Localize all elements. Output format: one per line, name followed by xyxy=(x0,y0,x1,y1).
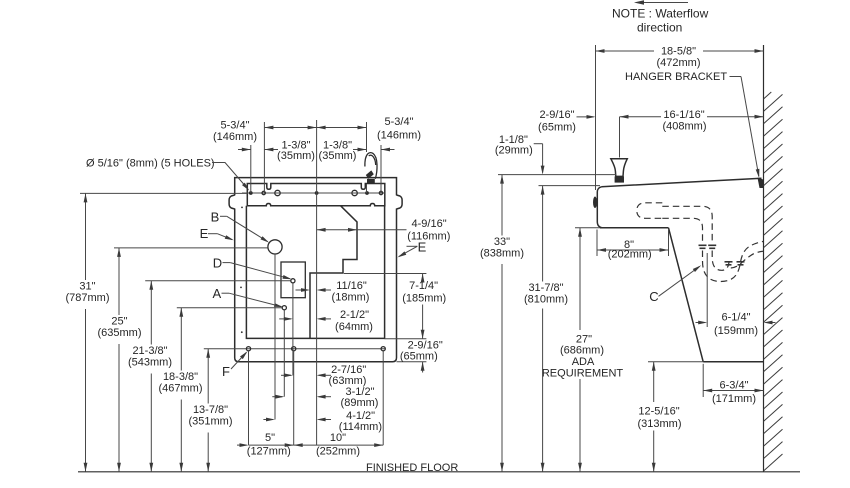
line B rim ext xyxy=(539,185,601,187)
dim 25 inch ext line xyxy=(114,247,268,249)
cabinet right ear tab xyxy=(397,195,403,209)
dim 10 inch xyxy=(294,444,384,446)
svg-text:(146mm): (146mm) xyxy=(377,130,421,142)
cooler body step contour xyxy=(310,206,357,339)
dim 31 inch xyxy=(85,193,87,280)
svg-text:6-3/4": 6-3/4" xyxy=(720,380,749,392)
hole A extension down xyxy=(283,310,285,397)
dim 13-7/8 xyxy=(207,349,209,404)
svg-text:5-3/4": 5-3/4" xyxy=(221,119,250,131)
wall hatching xyxy=(764,92,772,99)
svg-text:(467mm): (467mm) xyxy=(158,383,202,395)
dim 2-1/2 xyxy=(279,318,291,320)
hole D extension down xyxy=(292,283,294,375)
underside line xyxy=(600,227,669,229)
svg-text:(146mm): (146mm) xyxy=(213,131,257,143)
svg-text:(252mm): (252mm) xyxy=(316,446,360,458)
hole F1 extension down xyxy=(248,351,250,445)
svg-text:(65mm): (65mm) xyxy=(400,350,438,362)
union fitting 1 xyxy=(699,244,707,246)
dim 31-7/8 xyxy=(542,186,544,282)
wall line xyxy=(763,45,765,472)
panel screw dot 1 xyxy=(241,207,243,209)
svg-text:5-3/4": 5-3/4" xyxy=(385,116,414,128)
svg-text:11/16": 11/16" xyxy=(336,280,367,292)
ext line hole1 up xyxy=(250,145,252,193)
bottom hole F1 xyxy=(246,347,250,351)
ext line bubbler center xyxy=(619,117,621,158)
dim 7-1/4 xyxy=(422,274,424,278)
svg-text:F: F xyxy=(222,364,230,379)
circle B extension down xyxy=(274,254,276,420)
drain outlet into wall xyxy=(731,251,764,268)
bracket hole center line xyxy=(242,192,385,194)
dim 27 ext line xyxy=(575,227,600,229)
line A bubbler top ext xyxy=(498,174,616,176)
svg-text:21-3/8": 21-3/8" xyxy=(132,345,167,357)
dim 25 inch xyxy=(118,248,120,315)
inner bottom ext right xyxy=(385,338,427,340)
svg-text:(64mm): (64mm) xyxy=(335,321,373,333)
svg-text:10": 10" xyxy=(330,432,346,444)
svg-text:(686mm): (686mm) xyxy=(560,345,604,357)
dim 16-1/16 xyxy=(620,116,662,118)
bracket hole 4 (dark) xyxy=(365,191,369,195)
svg-text:(543mm): (543mm) xyxy=(128,357,172,369)
panel screw dot 2 xyxy=(240,287,242,289)
svg-text:(408mm): (408mm) xyxy=(662,121,706,133)
svg-text:E: E xyxy=(418,240,427,255)
cabinet bottom ext right xyxy=(397,361,427,363)
svg-text:4-9/16": 4-9/16" xyxy=(412,218,447,230)
dim 18-5/8 xyxy=(596,50,655,52)
hole D xyxy=(291,279,295,283)
bottom hole row line xyxy=(204,348,385,350)
hole diameter leader xyxy=(212,163,248,189)
ext line hole2 up xyxy=(263,122,265,193)
svg-text:(159mm): (159mm) xyxy=(714,325,758,337)
svg-text:6-1/4": 6-1/4" xyxy=(722,312,751,324)
dim 12-5/16 xyxy=(653,362,655,402)
dim 8 inch xyxy=(596,230,598,257)
hole F2 extension down xyxy=(293,351,295,445)
bubbler front view xyxy=(365,153,377,179)
svg-text:D: D xyxy=(213,256,222,271)
bracket slot hole right xyxy=(352,190,357,195)
dim 4-9/16 xyxy=(317,229,407,231)
svg-text:7-1/4": 7-1/4" xyxy=(409,280,438,292)
cabinet outline front view xyxy=(235,178,397,362)
svg-text:C: C xyxy=(649,289,658,304)
svg-text:2-1/2": 2-1/2" xyxy=(340,309,369,321)
ext line rear bottom corner xyxy=(702,364,704,397)
svg-text:(35mm): (35mm) xyxy=(277,150,315,162)
svg-text:18-3/8": 18-3/8" xyxy=(163,371,198,383)
dim 18-3/8 xyxy=(180,308,182,371)
svg-text:13-7/8": 13-7/8" xyxy=(193,404,228,416)
svg-text:2-9/16": 2-9/16" xyxy=(539,109,574,121)
dim 6-3/4 xyxy=(703,390,763,392)
svg-text:Ø 5/16" (8mm) (5 HOLES): Ø 5/16" (8mm) (5 HOLES) xyxy=(86,158,215,170)
hanger bracket section at wall xyxy=(758,178,764,188)
drain pipe inner run xyxy=(662,218,702,243)
svg-text:(127mm): (127mm) xyxy=(247,446,291,458)
dim 2-9/16 right xyxy=(422,362,424,373)
svg-text:B: B xyxy=(211,210,220,225)
svg-text:(114mm): (114mm) xyxy=(339,421,382,433)
centerline xyxy=(316,120,318,445)
svg-text:ADA: ADA xyxy=(572,356,595,368)
svg-text:(472mm): (472mm) xyxy=(656,57,700,69)
svg-text:REQUIREMENT: REQUIREMENT xyxy=(542,367,624,379)
dim 3-1/2 xyxy=(272,396,282,398)
dim 18-3/8 ext line xyxy=(177,307,282,309)
hanger bracket front view outline xyxy=(247,184,384,206)
waterflow arrow xyxy=(636,2,688,4)
cabinet left ear tab xyxy=(229,195,235,209)
trap S-bend outer xyxy=(703,241,764,281)
dim 5 inch xyxy=(237,444,247,446)
bubbler side view xyxy=(611,159,628,177)
dim 11/16 xyxy=(296,289,309,291)
hole F3 extension down xyxy=(382,351,384,445)
svg-text:(18mm): (18mm) xyxy=(332,292,370,304)
svg-text:FINISHED FLOOR: FINISHED FLOOR xyxy=(366,462,458,474)
dim 1-3/8 left arrows xyxy=(238,149,251,151)
trap hole B circle xyxy=(268,240,282,254)
svg-text:(787mm): (787mm) xyxy=(65,292,109,304)
svg-text:A: A xyxy=(212,286,221,301)
svg-text:25": 25" xyxy=(111,315,127,327)
hole A xyxy=(282,306,286,310)
union fitting 2 xyxy=(725,261,733,263)
svg-text:5": 5" xyxy=(265,432,275,444)
drain pipe top run xyxy=(662,206,712,243)
dim 33 inch xyxy=(501,175,503,236)
svg-text:18-5/8": 18-5/8" xyxy=(661,45,696,57)
dim 2-9/16 top xyxy=(577,116,594,118)
dim 27 ADA xyxy=(579,228,581,330)
svg-text:(838mm): (838mm) xyxy=(480,248,524,260)
svg-text:(171mm): (171mm) xyxy=(712,393,756,405)
svg-text:(313mm): (313mm) xyxy=(637,418,681,430)
bracket hole 2 xyxy=(262,191,265,194)
step ext line right xyxy=(344,273,426,275)
svg-text:31": 31" xyxy=(79,280,95,292)
svg-text:(29mm): (29mm) xyxy=(495,144,533,156)
bottom hole F3 xyxy=(381,347,385,351)
ext line drain center xyxy=(706,253,708,327)
dim 21-3/8 ext line xyxy=(145,280,290,282)
svg-text:(635mm): (635mm) xyxy=(97,327,141,339)
inner back panel xyxy=(246,206,384,339)
svg-text:(65mm): (65mm) xyxy=(538,121,576,133)
svg-text:(35mm): (35mm) xyxy=(319,150,357,162)
svg-text:16-1/16": 16-1/16" xyxy=(663,109,704,121)
svg-text:direction: direction xyxy=(637,21,682,35)
svg-text:(89mm): (89mm) xyxy=(341,397,379,409)
svg-text:HANGER BRACKET: HANGER BRACKET xyxy=(625,71,727,83)
bracket hole 1 (dark) xyxy=(249,191,253,195)
finished floor line xyxy=(78,471,800,473)
bracket hole center (dark) xyxy=(315,191,319,195)
ext line front of unit xyxy=(595,45,597,190)
bracket hole 5 xyxy=(379,191,382,194)
ext line hole5 up xyxy=(380,145,382,193)
dim 2-7/16 xyxy=(281,374,291,376)
svg-text:27": 27" xyxy=(576,333,592,345)
front face xyxy=(597,187,603,228)
dim 21-3/8 xyxy=(150,281,152,345)
svg-text:NOTE : Waterflow: NOTE : Waterflow xyxy=(612,7,709,21)
bottom hole F2 xyxy=(292,347,296,351)
basin rim line xyxy=(602,178,762,187)
dim 5-3/4 right line xyxy=(317,127,367,129)
dim 1-3/8 right arrows xyxy=(353,149,367,151)
push button front xyxy=(593,197,597,209)
dim 6-1/4 xyxy=(696,322,706,324)
svg-text:12-5/16": 12-5/16" xyxy=(638,406,679,418)
drain tailpiece xyxy=(637,203,663,219)
bottom rear line xyxy=(648,361,703,363)
outlet box D xyxy=(281,262,305,298)
svg-text:33": 33" xyxy=(494,236,510,248)
dim 5-3/4 left line xyxy=(264,127,316,129)
svg-text:(116mm): (116mm) xyxy=(407,230,450,242)
dim 31 inch ext line xyxy=(80,192,247,194)
dim 4-1/2 xyxy=(263,419,273,421)
ext line hole4 up xyxy=(366,122,368,152)
svg-text:(185mm): (185mm) xyxy=(402,293,446,305)
bracket slot hole left xyxy=(275,190,280,195)
svg-text:31-7/8": 31-7/8" xyxy=(528,282,563,294)
svg-text:(810mm): (810mm) xyxy=(524,294,568,306)
svg-text:E: E xyxy=(200,226,209,241)
svg-text:(202mm): (202mm) xyxy=(608,249,652,261)
lower rear diagonal xyxy=(669,228,704,362)
trap S-bend inner xyxy=(712,251,729,271)
panel screw dot 3 xyxy=(241,331,243,333)
svg-text:(351mm): (351mm) xyxy=(188,416,232,428)
